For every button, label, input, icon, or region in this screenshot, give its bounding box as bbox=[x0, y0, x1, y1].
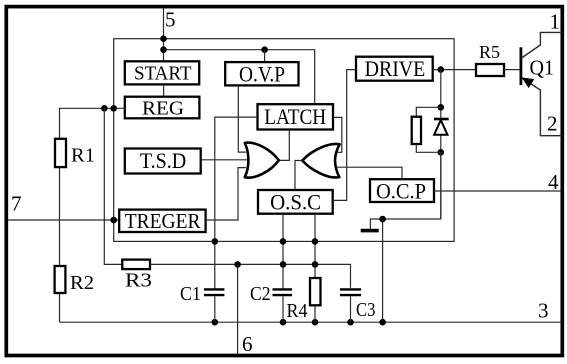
wire R1 top to REG bbox=[60, 108, 125, 139]
node C3 bottom bbox=[347, 319, 354, 326]
wire OVP top bbox=[264, 50, 266, 62]
transistor Q1 bbox=[521, 32, 561, 135]
wire R3 rail bbox=[104, 108, 122, 264]
node OSC-R4 at IC boundary bbox=[312, 238, 319, 245]
wire T.S.D to gate1 middle input bbox=[201, 159, 249, 161]
node LATCH wire at IC boundary bottom bbox=[212, 238, 219, 245]
node DRIVE output bbox=[438, 66, 445, 73]
wire clamp resistor bottom bbox=[416, 144, 441, 152]
wire R3 to C3 bbox=[150, 264, 351, 288]
node OSC-C2 at IC boundary bbox=[280, 238, 287, 245]
diode D1 body bbox=[434, 120, 447, 135]
resistor R3 bbox=[122, 260, 150, 270]
svg-text:R2: R2 bbox=[70, 272, 94, 294]
resistor internal clamp bbox=[412, 117, 421, 144]
svg-text:START: START bbox=[134, 62, 192, 84]
node pin7 at IC boundary bbox=[110, 217, 117, 224]
wire O.V.P bottom to gate1 upper input bbox=[238, 85, 246, 152]
block TREGER bbox=[119, 209, 205, 233]
capacitor C2 bbox=[273, 289, 293, 322]
wire O.S.C bottom to C2 bbox=[282, 214, 284, 289]
svg-text:C1: C1 bbox=[180, 283, 201, 305]
wire LATCH right to gate2 upper input bbox=[333, 117, 342, 152]
wire R1 to R2 bbox=[59, 167, 61, 266]
node Vcc rail at pin5 bbox=[160, 46, 167, 53]
svg-text:3: 3 bbox=[538, 299, 549, 323]
svg-text:O.C.P: O.C.P bbox=[376, 178, 426, 203]
svg-text:R5: R5 bbox=[479, 42, 500, 62]
svg-text:C2: C2 bbox=[250, 283, 271, 305]
svg-text:6: 6 bbox=[242, 332, 253, 356]
wire R4 bottom bbox=[314, 305, 316, 322]
IC block boundary bbox=[114, 39, 454, 242]
gate G1 bbox=[245, 143, 279, 178]
resistor R5 bbox=[476, 64, 504, 76]
svg-text:7: 7 bbox=[11, 192, 22, 216]
wire Vcc rail to LATCH top bbox=[164, 50, 315, 104]
node clamp bottom bbox=[438, 149, 445, 156]
capacitor C3 bbox=[340, 289, 361, 322]
svg-text:O.V.P: O.V.P bbox=[239, 61, 285, 86]
wire sense to pin3 rail bbox=[382, 219, 384, 322]
wire LATCH bottom to gate1 nose bbox=[279, 130, 290, 161]
wire DRIVE output to R5 bbox=[433, 69, 476, 71]
block O.C.P bbox=[370, 178, 434, 203]
ground bar bbox=[361, 229, 379, 233]
svg-text:1: 1 bbox=[550, 10, 561, 34]
svg-text:TREGER: TREGER bbox=[125, 209, 201, 233]
resistor R2 bbox=[55, 266, 66, 293]
svg-text:DRIVE: DRIVE bbox=[365, 56, 426, 81]
node clamp top bbox=[438, 104, 445, 111]
wire drive clamp vertical bbox=[440, 70, 442, 219]
wire R2 bottom bbox=[59, 293, 61, 322]
svg-text:R4: R4 bbox=[287, 300, 308, 322]
wire DRIVE left to O.S.C right bbox=[333, 70, 356, 201]
resistor R1 bbox=[55, 139, 66, 167]
svg-text:R1: R1 bbox=[71, 144, 95, 166]
diode D1 cathode bar bbox=[434, 118, 449, 121]
wire pin7 to TREGER bbox=[8, 219, 119, 221]
block START bbox=[125, 61, 199, 84]
svg-text:5: 5 bbox=[165, 8, 176, 32]
svg-text:O.S.C: O.S.C bbox=[270, 189, 321, 214]
svg-text:R3: R3 bbox=[125, 269, 152, 291]
node R4 top junction bbox=[312, 261, 319, 268]
node pin5 on IC boundary bbox=[160, 35, 167, 42]
block DRIVE bbox=[356, 56, 433, 81]
svg-text:T.S.D: T.S.D bbox=[140, 148, 186, 173]
svg-text:2: 2 bbox=[547, 112, 558, 136]
node C2 bottom bbox=[280, 319, 287, 326]
node sense junction bbox=[379, 216, 386, 223]
block O.S.C bbox=[258, 189, 333, 214]
node C2 top junction bbox=[280, 261, 287, 268]
wire pin3 rail bbox=[60, 321, 561, 323]
block REG bbox=[125, 97, 200, 120]
node Vcc rail at OVP bbox=[261, 46, 268, 53]
wire current sense bbox=[370, 152, 440, 229]
node sense bottom bbox=[379, 319, 386, 326]
block T.S.D bbox=[125, 148, 201, 174]
block O.V.P bbox=[225, 61, 298, 86]
svg-text:C3: C3 bbox=[356, 299, 376, 321]
svg-text:Q1: Q1 bbox=[530, 56, 555, 80]
node R4 bottom bbox=[312, 319, 319, 326]
wire R5 to Q1 base bbox=[504, 69, 520, 71]
node pin6 junction bbox=[234, 261, 241, 268]
node C1 bottom bbox=[212, 319, 219, 326]
wire pin5 vertical bbox=[163, 8, 165, 61]
wire O.C.P top to gate2 lower input bbox=[336, 167, 402, 179]
wire gate2 nose to O.S.C top bbox=[295, 161, 302, 191]
wire pin4 from O.C.P bbox=[434, 190, 560, 192]
resistor R4 bbox=[310, 278, 321, 305]
gate G2 bbox=[302, 144, 339, 177]
wire START to REG bbox=[163, 84, 165, 96]
wire O.S.C bottom to R4 bbox=[314, 214, 316, 278]
block LATCH bbox=[258, 104, 334, 129]
wire LATCH left to C1 bbox=[215, 117, 258, 289]
node REG wire to R3 column bbox=[101, 105, 108, 112]
wire pin6 bbox=[237, 264, 239, 353]
svg-text:LATCH: LATCH bbox=[264, 104, 326, 129]
svg-text:REG: REG bbox=[142, 97, 184, 119]
wire clamp resistor top bbox=[416, 107, 441, 116]
svg-text:4: 4 bbox=[548, 170, 559, 194]
wire TREGER to gate1 lower input bbox=[206, 168, 246, 220]
capacitor C1 bbox=[204, 289, 224, 322]
node REG wire at IC boundary bbox=[110, 105, 117, 112]
